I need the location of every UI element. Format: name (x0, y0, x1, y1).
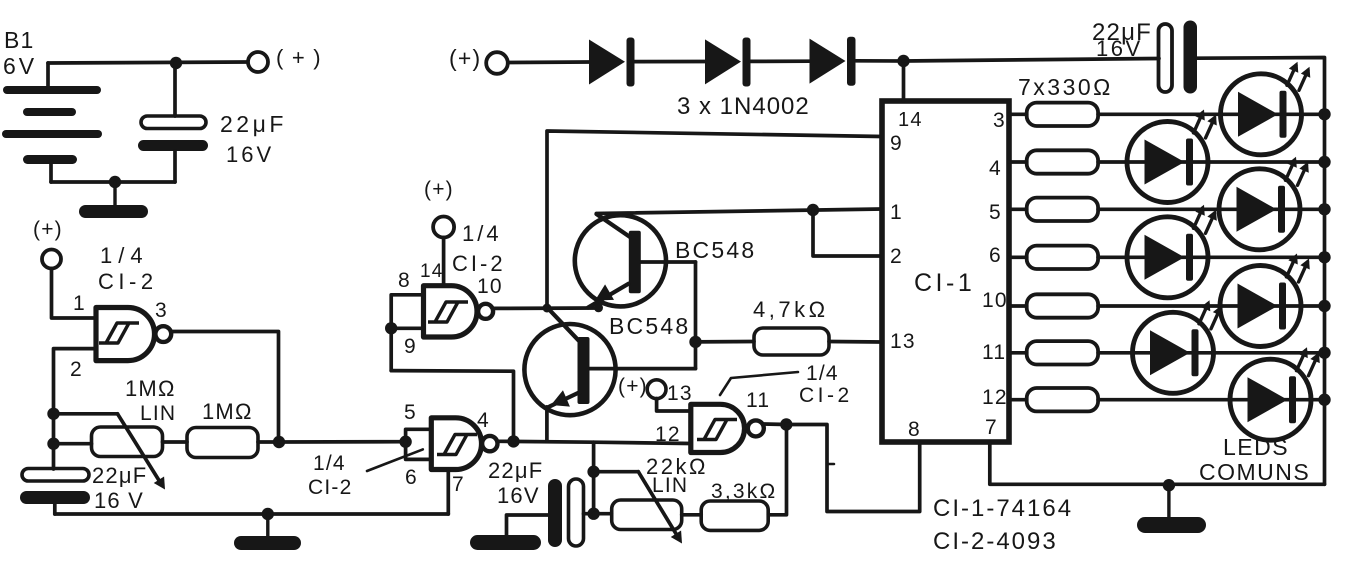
svg-text:6V: 6V (3, 53, 37, 79)
resistor R7 330 row4 (pin 6) (1009, 246, 1325, 269)
svg-text:9: 9 (404, 335, 417, 358)
node ground junction 1 (109, 176, 121, 188)
wire battery bottom (51, 180, 175, 184)
svg-text:CI-2-4093: CI-2-4093 (933, 528, 1058, 555)
LED D10 row7 (1230, 347, 1320, 440)
node LED bus row5 (1318, 300, 1330, 312)
svg-text:8: 8 (398, 269, 411, 292)
diode D3 1N4002 (810, 37, 856, 86)
svg-text:3: 3 (155, 299, 168, 322)
svg-text:2: 2 (890, 245, 903, 268)
svg-text:22μF: 22μF (220, 111, 287, 137)
wire gate4 in from gate2 out (391, 371, 513, 442)
ground G4 (1137, 485, 1206, 533)
svg-text:6: 6 (989, 244, 1002, 267)
svg-text:CI-1: CI-1 (914, 269, 975, 297)
wire cap to LED bus (1197, 58, 1325, 114)
wire gate1 output feedback (172, 332, 279, 443)
svg-text:4: 4 (477, 409, 490, 432)
svg-text:CI-2: CI-2 (98, 269, 158, 294)
svg-text:COMUNS: COMUNS (1199, 459, 1310, 485)
diode D2 1N4002 (705, 38, 751, 87)
wire Q2 base lead (590, 367, 696, 371)
wire gate2 input stubs (406, 429, 432, 459)
svg-text:1MΩ: 1MΩ (125, 376, 176, 401)
svg-text:13: 13 (667, 382, 693, 405)
svg-text:11: 11 (746, 389, 770, 412)
svg-text:4,7kΩ: 4,7kΩ (753, 297, 829, 322)
node battery+/cap junction (170, 57, 182, 69)
svg-text:10: 10 (982, 289, 1008, 312)
wire gate3 label pointer (720, 372, 798, 395)
label gate3 pins (655, 382, 770, 446)
wire supply segment A (509, 60, 590, 64)
capacitor C4 22uF 16V (supply) (1092, 19, 1197, 94)
label 7x330 ohm (1018, 74, 1113, 100)
svg-text:LEDS: LEDS (1223, 434, 1289, 460)
svg-text:BC548: BC548 (609, 313, 690, 339)
resistor R6 330 row3 (pin 5) (1009, 198, 1325, 221)
wire Q1 collector to CI-1 pin1 (596, 209, 882, 214)
label 3 x 1N4002 (677, 93, 810, 120)
wire pin2 left vertical (54, 349, 97, 469)
svg-text:7: 7 (452, 473, 465, 496)
capacitor C3 22uF 16V (488, 458, 584, 547)
node base junction (689, 336, 701, 348)
node clock junction (543, 304, 552, 313)
svg-text:(+): (+) (449, 45, 481, 71)
node pot wiper junction (587, 466, 599, 478)
svg-text:1/4: 1/4 (462, 221, 502, 246)
label gate1 1/4 CI-2 (98, 243, 158, 294)
wire gate3 out to CI-1 pin8 (786, 425, 919, 512)
wire gate2 out to gate3 in (498, 441, 691, 443)
svg-text:16V: 16V (497, 483, 540, 508)
svg-text:22μF: 22μF (92, 463, 147, 488)
svg-text:CI-2: CI-2 (308, 476, 352, 499)
svg-text:B1: B1 (4, 27, 35, 53)
wire Q1 base lead (641, 260, 696, 264)
label gate4 pins (398, 261, 503, 358)
label CI-2-4093 (933, 528, 1058, 555)
node osc top junction (47, 408, 59, 420)
capacitor C1 22uF 16V (138, 63, 287, 182)
node R1 junction (273, 436, 285, 448)
wire ground bottom left (55, 512, 449, 516)
op-amp U2B nand gate 1/4 CI-2 (pins 5,6,4) (431, 418, 497, 470)
resistor R4 330 row1 (pin 3) (1009, 103, 1325, 126)
node LED bus row3 (1318, 203, 1330, 215)
wire (+) to pin13 (657, 399, 691, 411)
wire gate3 output (764, 422, 787, 426)
wire supply to cap (904, 59, 1160, 62)
diode D1 1N4002 (589, 38, 635, 87)
wire gate4 input stubs (391, 295, 423, 371)
svg-text:16V: 16V (1096, 36, 1143, 61)
op-amp U2D nand gate 1/4 CI-2 (pins 8,9,10) (424, 286, 494, 337)
node osc bottom junction (47, 438, 59, 450)
label CI-1-74164 (933, 495, 1073, 522)
resistor R1 1M (163, 399, 280, 458)
terminal (+) gate1 (33, 218, 63, 269)
transistor Q2 BC548 (524, 309, 690, 415)
resistor R10 330 row7 (pin 12) (1009, 388, 1325, 411)
node rail/pin14 junction (897, 55, 909, 67)
svg-text:12: 12 (655, 423, 681, 446)
svg-text:14: 14 (420, 261, 444, 282)
svg-text:2: 2 (70, 358, 83, 381)
svg-text:8: 8 (908, 418, 921, 441)
wire gate2 label pointer (367, 449, 423, 471)
transistor Q1 BC548 (575, 214, 757, 308)
svg-text:5: 5 (404, 401, 417, 424)
wire pin14 to rail (902, 61, 906, 101)
LED D9 row6 (1133, 300, 1223, 393)
svg-text:3,3kΩ: 3,3kΩ (711, 480, 777, 503)
LED D8 row5 (1220, 254, 1310, 347)
resistor R2 3.3k (682, 425, 787, 531)
svg-text:1/4: 1/4 (806, 362, 839, 385)
wire branch to pin2 (813, 210, 882, 256)
wire battery top rail (48, 62, 247, 63)
node LED bus row7 (1318, 394, 1330, 406)
svg-text:LIN: LIN (140, 402, 176, 425)
node pin1/pin2 junction (807, 204, 819, 216)
svg-text:3 x 1N4002: 3 x 1N4002 (677, 93, 810, 120)
node ground junction 2 (262, 508, 274, 520)
node gate2 output junction (507, 435, 519, 447)
svg-text:7x330Ω: 7x330Ω (1018, 74, 1113, 100)
wire supply segment D (856, 59, 904, 63)
potentiometer P2 22k LIN (594, 454, 708, 544)
svg-text:22μF: 22μF (488, 458, 543, 483)
svg-text:16V: 16V (226, 142, 274, 167)
terminal (+) gate4 (424, 178, 454, 238)
svg-text:7: 7 (985, 416, 998, 439)
capacitor C2 22uF 16V (osc) (20, 463, 147, 514)
ground G1 (79, 182, 148, 218)
label gate2 1/4 CI-2 (308, 452, 352, 499)
label gate4 1/4 CI-2 (452, 221, 506, 276)
label gate1 pins (70, 292, 168, 381)
svg-text:14: 14 (898, 109, 923, 131)
wire cap to pot node (584, 512, 594, 516)
label gate3 1/4 CI-2 (799, 362, 853, 407)
svg-text:1MΩ: 1MΩ (202, 399, 253, 424)
svg-text:(+): (+) (33, 218, 63, 241)
resistor R8 330 row5 (pin 10) (1009, 294, 1325, 317)
wire pin7 to ground (446, 470, 450, 515)
wire clock vertical to CI-1 pin9 (547, 131, 882, 308)
svg-text:( + ): ( + ) (276, 45, 322, 70)
terminal (+) battery (248, 45, 322, 72)
wire (+) to pin1 (52, 269, 97, 319)
resistor R5 330 row2 (pin 4) (1009, 150, 1325, 173)
node LED bus row6 (1318, 347, 1330, 359)
LED D4 row1 (1221, 62, 1311, 155)
label CI-1 right pin numbers (982, 109, 1008, 439)
svg-text:1: 1 (73, 292, 86, 315)
svg-text:4: 4 (989, 157, 1002, 180)
svg-text:6: 6 (405, 466, 418, 489)
potentiometer P1 1M LIN (54, 376, 177, 490)
svg-text:CI-2: CI-2 (799, 384, 853, 407)
wire LED common bus (1323, 114, 1327, 485)
svg-text:13: 13 (890, 330, 916, 353)
node Q1 emitter junction (594, 303, 603, 312)
node pot end junction (587, 508, 599, 520)
resistor R9 330 row6 (pin 11) (1009, 341, 1325, 364)
wire emitter branch (545, 407, 549, 442)
battery B1 6V (2, 27, 102, 182)
svg-text:9: 9 (890, 132, 903, 155)
svg-text:(+): (+) (424, 178, 454, 201)
svg-text:10: 10 (477, 275, 503, 298)
node LED common ground junction (1163, 479, 1175, 491)
svg-text:3: 3 (993, 109, 1006, 132)
wire gate4 output (493, 306, 599, 310)
svg-text:CI-2: CI-2 (452, 251, 506, 276)
terminal (+) supply (449, 45, 508, 74)
node gate3 output junction (780, 418, 792, 430)
svg-text:1: 1 (890, 201, 903, 224)
node gate4 input junction (385, 322, 397, 334)
svg-text:16 V: 16 V (94, 488, 144, 513)
wire supply segment C (751, 59, 810, 63)
svg-text:12: 12 (982, 386, 1008, 409)
LED D7 row4 (1127, 205, 1217, 298)
label CI-1 left pin numbers (890, 109, 923, 441)
op-amp U2A nand gate 1/4 CI-2 (pins 1,2,3) (96, 308, 171, 361)
terminal (+) gate3 (618, 375, 666, 399)
ground G2 (234, 514, 301, 550)
LED D6 row3 (1219, 157, 1309, 250)
node LED bus row2 (1318, 156, 1330, 168)
svg-text:1/4: 1/4 (100, 243, 149, 268)
svg-text:CI-1-74164: CI-1-74164 (933, 495, 1073, 522)
svg-text:BC548: BC548 (675, 237, 756, 263)
svg-text:11: 11 (982, 341, 1006, 364)
label LEDS COMUNS (1199, 434, 1310, 485)
label gate2 pins (404, 401, 490, 496)
wire to gate2 inputs (279, 440, 406, 444)
resistor R3 4.7k (696, 297, 883, 355)
op-amp U2C nand gate 1/4 CI-2 (pins 12,13,11) (691, 404, 764, 452)
IC U1 CI-1 74164 (882, 101, 1009, 442)
node LED bus row1 (1318, 108, 1330, 120)
svg-text:1/4: 1/4 (313, 452, 346, 475)
node LED bus row4 (1318, 251, 1330, 263)
node gate2 input junction (399, 436, 411, 448)
wire stub artifact (827, 463, 834, 466)
svg-text:(+): (+) (618, 375, 648, 398)
wire pin7 to LED common (990, 442, 1325, 484)
ground G3 (470, 535, 541, 550)
wire gate3-in vertical (592, 442, 596, 514)
wire supply segment B (635, 60, 706, 64)
svg-text:LIN: LIN (652, 474, 688, 497)
svg-text:5: 5 (989, 201, 1002, 224)
LED D5 row2 (1127, 110, 1217, 203)
wire (+) to pin14 gate4 (442, 238, 446, 286)
wire base tie vertical (694, 262, 698, 369)
